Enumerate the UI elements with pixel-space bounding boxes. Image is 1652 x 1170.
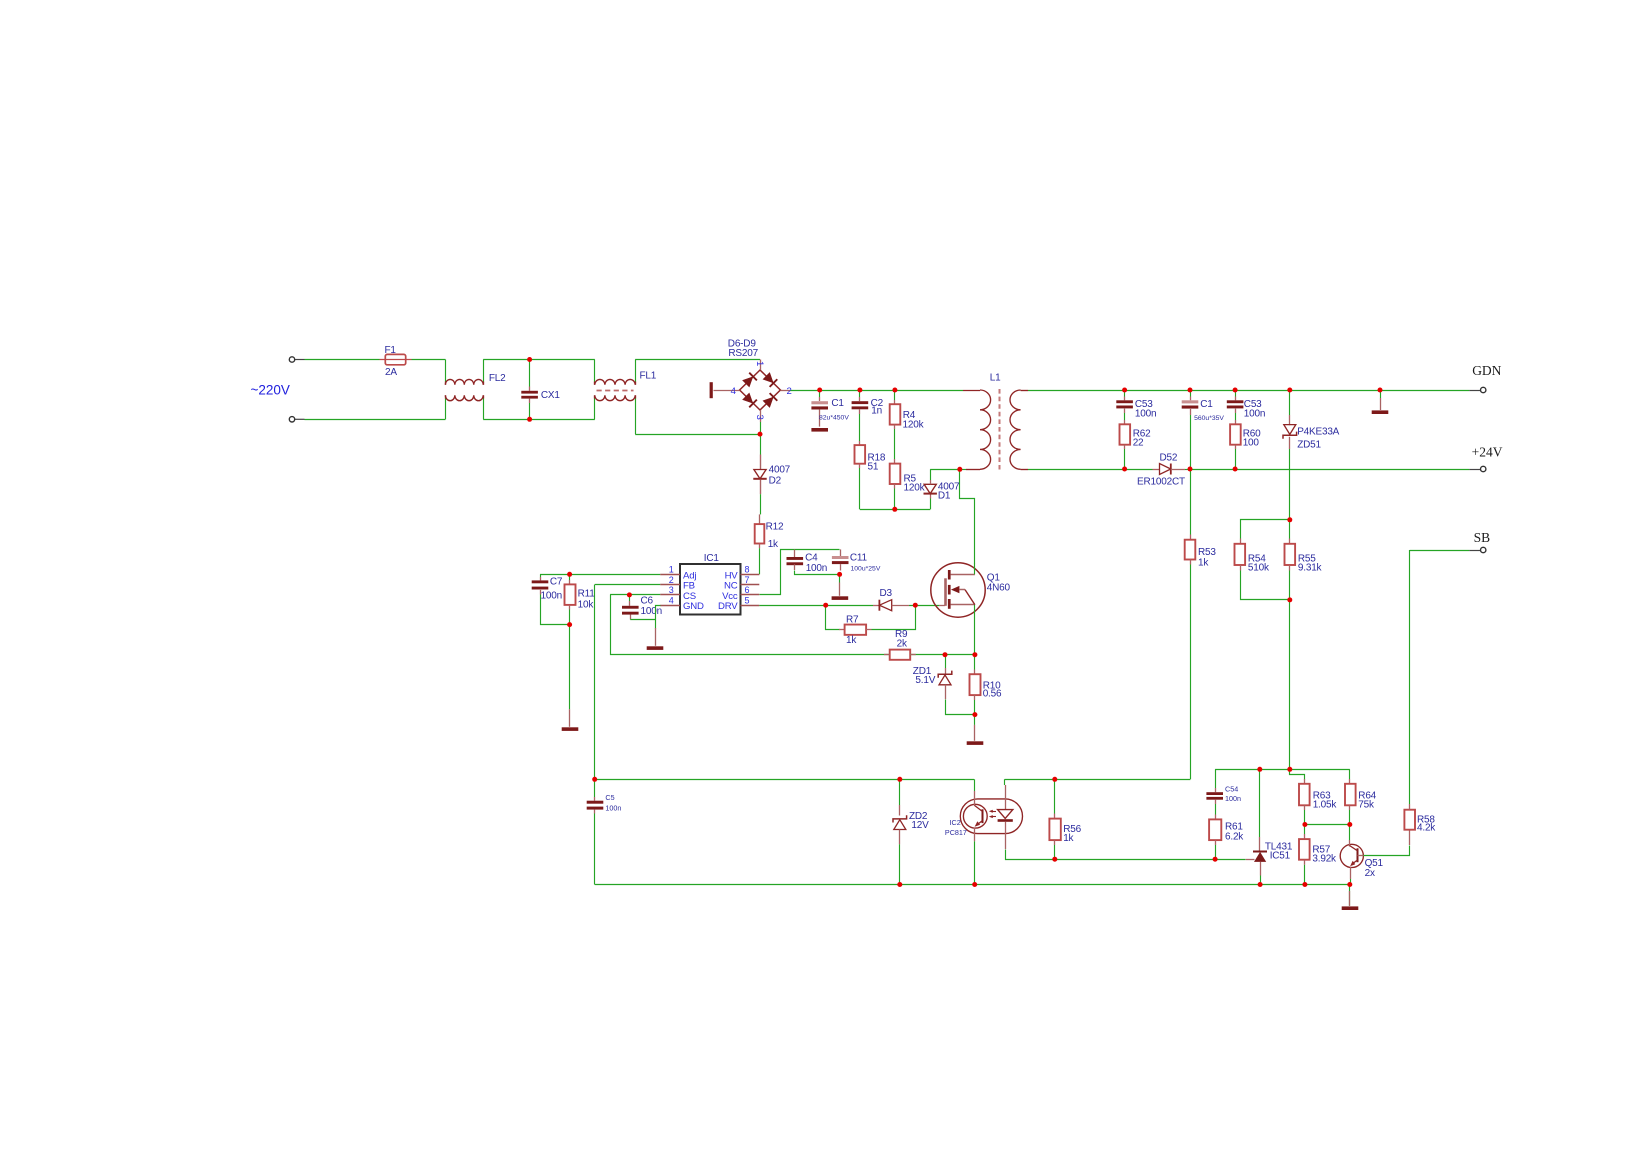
svg-text:560u*35V: 560u*35V — [1194, 415, 1224, 422]
resistor R60 100 — [1235, 420, 1237, 424]
svg-text:8: 8 — [745, 565, 750, 575]
wire bridge + rail to transformer — [791, 390, 964, 392]
ground below C11 — [832, 596, 849, 600]
svg-text:D1: D1 — [938, 491, 951, 502]
junction at 529.6,359.5 — [527, 357, 532, 362]
diode D2 4007 — [760, 434, 762, 454]
junction at 1380,390 — [1378, 388, 1383, 393]
junction at 569.6,574.3 — [567, 572, 572, 577]
svg-text:1k: 1k — [1063, 833, 1074, 844]
svg-text:R11: R11 — [578, 589, 596, 600]
svg-text:10k: 10k — [578, 599, 595, 610]
wire D1 to drain node — [930, 469, 960, 471]
svg-text:510k: 510k — [1248, 563, 1270, 574]
svg-text:2: 2 — [787, 386, 792, 397]
resistor R62 22 — [1124, 420, 1126, 424]
svg-text:6.2k: 6.2k — [1225, 831, 1244, 842]
junction at 819.7,390 — [817, 388, 822, 393]
capacitor C7 100n — [540, 574, 542, 577]
svg-text:2k: 2k — [897, 638, 908, 649]
ground below Q51 — [1342, 906, 1359, 910]
junction at 915.3,605.2 — [913, 603, 918, 608]
svg-text:0.56: 0.56 — [983, 688, 1002, 699]
bridge diode D7 (1->2) — [763, 372, 778, 387]
junction at 974.9,654.7 — [972, 652, 977, 657]
junction at 859.9,390 — [857, 388, 862, 393]
svg-text:100n: 100n — [541, 590, 562, 601]
wire F1 to FL2 — [412, 359, 446, 361]
wire FL1 top to bridge pin1 — [635, 359, 760, 361]
Q51 emitter lead — [1350, 867, 1352, 879]
terminal AC input N — [295, 418, 305, 420]
wire Vcc to C4/C11 rail — [760, 550, 840, 595]
junction at 1304.9,824.5 — [1302, 822, 1307, 827]
capacitor C6 100n — [629, 595, 631, 601]
inductor FL1 (common-mode choke) — [594, 360, 596, 382]
junction at 1349.8,824.5 — [1347, 822, 1352, 827]
wire R10 to ground — [974, 715, 976, 725]
svg-text:~220V: ~220V — [251, 383, 290, 398]
svg-text:C4: C4 — [805, 552, 818, 563]
junction at 1289.8,599.9 — [1287, 597, 1292, 602]
svg-text:1.05k: 1.05k — [1313, 800, 1338, 811]
svg-text:1: 1 — [754, 361, 765, 366]
capacitor C5 100n — [594, 779, 596, 797]
wire L terminal to F1 — [305, 359, 380, 361]
svg-text:SB: SB — [1474, 530, 1491, 545]
svg-text:9.31k: 9.31k — [1298, 563, 1323, 574]
junction at 569.6,624.6 — [567, 622, 572, 627]
wire Q51 emitter to ground — [1349, 885, 1351, 906]
svg-text:5: 5 — [745, 596, 750, 606]
svg-text:D2: D2 — [769, 476, 782, 487]
wire FB rail to optocoupler — [595, 779, 974, 781]
svg-text:R7: R7 — [846, 615, 859, 626]
junction at 1215.1,859.2 — [1213, 857, 1218, 862]
terminal AC input L — [295, 359, 305, 361]
IC1 pin stubs left — [660, 574, 680, 576]
svg-text:75k: 75k — [1358, 800, 1375, 811]
junction at 1289.8,519.8 — [1287, 517, 1292, 522]
wire to primary ground — [569, 625, 571, 710]
resistor R63 1.05k — [1304, 779, 1306, 784]
junction at 1124.6,390 — [1122, 388, 1127, 393]
junction at 1304.9,884.5 — [1302, 882, 1307, 887]
svg-text:120k: 120k — [904, 483, 926, 494]
wire LED cathode to TL431 ref rail — [1006, 850, 1246, 860]
junction at 629.4,594.9 — [627, 592, 632, 597]
junction at 1054.8,779.3 — [1052, 777, 1057, 782]
wire R54/R55 node down to TL431 rail — [1289, 600, 1291, 769]
junction at 529.6,419.3 — [527, 417, 532, 422]
svg-text:+24V: +24V — [1472, 445, 1503, 460]
svg-text:1k: 1k — [846, 635, 857, 646]
svg-text:IC2: IC2 — [950, 818, 961, 827]
diode D1 4007 — [930, 499, 932, 510]
resistor R61 6.2k — [1215, 815, 1217, 820]
capacitor C53 100n (snubber) — [1124, 390, 1126, 397]
svg-text:2: 2 — [669, 575, 674, 585]
svg-text:100u*25V: 100u*25V — [851, 566, 881, 573]
resistor R12 1k — [759, 514, 761, 524]
svg-text:GND: GND — [683, 601, 704, 612]
wire FL2 top to CX1 and FL1 — [483, 360, 485, 382]
svg-text:3: 3 — [754, 415, 765, 420]
inductor FL2 lower winding — [445, 395, 447, 398]
ground below C1 — [811, 428, 828, 432]
terminal GDN — [1469, 390, 1480, 392]
wire clamp rail — [860, 509, 930, 511]
wire CS routing — [610, 594, 660, 596]
resistor R55 9.31k — [1289, 520, 1291, 539]
svg-text:120k: 120k — [903, 419, 925, 430]
junction at 1190,469 — [1188, 467, 1193, 472]
wire N terminal to FL2 bottom — [305, 419, 446, 421]
wire divider mid node — [1305, 824, 1350, 826]
resistor R56 1k — [1054, 779, 1056, 813]
ground below R11 — [562, 727, 579, 731]
transistor Q1 4N60 — [939, 605, 945, 607]
svg-text:12V: 12V — [911, 820, 929, 831]
inductor FL2 (common-mode choke) — [445, 382, 447, 385]
junction at 1260.1,884.5 — [1258, 882, 1263, 887]
wire LED anode rail — [1005, 779, 1190, 781]
terminal +24V — [1469, 469, 1480, 471]
junction at 894.8,509.3 — [892, 507, 897, 512]
svg-text:C5: C5 — [605, 793, 614, 802]
svg-text:DRV: DRV — [718, 601, 738, 612]
transformer L1 secondary winding — [1010, 390, 1021, 469]
terminal SB — [1410, 550, 1470, 552]
ground tap on GDN rail — [1380, 390, 1382, 398]
svg-text:ZD51: ZD51 — [1297, 440, 1321, 451]
bridge pin leads — [760, 360, 762, 371]
IC2 LED — [1004, 779, 1006, 785]
bridge diode D6 (4->1) — [742, 373, 757, 388]
bridge diode D8 (4->3) — [742, 393, 757, 408]
junction at 839.6,574.4 — [837, 572, 842, 577]
optocoupler IC2 PC817 — [960, 799, 1022, 834]
svg-text:C11: C11 — [850, 552, 868, 563]
svg-text:R53: R53 — [1198, 547, 1216, 558]
junction at 1054.8,859.2 — [1052, 857, 1057, 862]
capacitor C4 100n — [794, 549, 796, 557]
wire GND pin to ground — [656, 606, 661, 629]
svg-text:IC1: IC1 — [704, 553, 720, 564]
resistor R53 1k — [1190, 469, 1192, 535]
svg-text:D52: D52 — [1160, 453, 1178, 464]
junction at 899.8,884.5 — [897, 882, 902, 887]
svg-text:ER1002CT: ER1002CT — [1137, 477, 1185, 488]
svg-text:22: 22 — [1133, 438, 1144, 449]
capacitor C2 1n — [859, 390, 861, 397]
wire +24V rail — [1190, 469, 1469, 471]
wire bridge pin3 node — [760, 422, 762, 434]
svg-text:4N60: 4N60 — [987, 583, 1011, 594]
diode D52 ER1002CT — [1125, 469, 1153, 471]
zener ZD2 12V — [899, 779, 901, 805]
resistor R11 10k — [569, 574, 571, 580]
ground below IC1 — [647, 646, 664, 650]
IC2 emitter lead — [974, 828, 976, 842]
svg-text:FL1: FL1 — [640, 371, 657, 382]
IC1 pin stubs right — [741, 574, 760, 576]
svg-text:FL2: FL2 — [489, 373, 506, 384]
wire DRV line — [759, 605, 873, 607]
junction at 825.7,605.2 — [823, 603, 828, 608]
capacitor C53 100n (output) — [1235, 390, 1237, 397]
resistor R9 2k — [890, 650, 911, 660]
wire FL2 bottom to CX1 bottom and FL1 — [483, 399, 485, 420]
svg-text:6: 6 — [745, 585, 750, 595]
resistor R10 0.56 — [974, 655, 976, 670]
wire drain node down to Q1 — [960, 470, 975, 564]
svg-text:100n: 100n — [1135, 409, 1156, 420]
junction at 1124.6,469 — [1122, 467, 1127, 472]
svg-text:C1: C1 — [831, 398, 844, 409]
resistor R64 75k — [1349, 769, 1351, 779]
svg-text:5.1V: 5.1V — [915, 675, 935, 686]
svg-text:RS207: RS207 — [728, 348, 758, 359]
svg-text:100n: 100n — [1225, 794, 1241, 803]
svg-text:L1: L1 — [990, 372, 1001, 383]
svg-text:GDN: GDN — [1472, 363, 1501, 378]
junction at 974.9,714.6 — [972, 712, 977, 717]
wire TL431 top rail — [1215, 769, 1350, 771]
zener ZD51 P4KE33A — [1289, 390, 1291, 415]
IC1 box — [680, 564, 741, 615]
wire secondary bottom to D52 — [1028, 469, 1125, 471]
wire to ground below C11 — [839, 574, 841, 582]
fuse F1 — [385, 354, 405, 364]
resistor R5 120k — [894, 459, 896, 464]
svg-text:CX1: CX1 — [541, 390, 560, 401]
bridge diode D9 (3->2) — [763, 393, 778, 408]
junction at 899.8,779.3 — [897, 777, 902, 782]
inductor FL1 lower winding — [594, 399, 596, 420]
svg-text:R12: R12 — [766, 521, 784, 532]
resistor R58 4.2k — [1409, 830, 1411, 845]
svg-text:F1: F1 — [385, 345, 397, 356]
wire FB down — [595, 584, 661, 586]
capacitor CX1 — [529, 360, 531, 387]
junction at 959.8,469.3 — [957, 467, 962, 472]
svg-text:3.92k: 3.92k — [1312, 854, 1337, 865]
svg-text:C1: C1 — [1200, 399, 1213, 410]
capacitor C54 100n — [1215, 769, 1217, 788]
svg-text:D3: D3 — [880, 588, 893, 599]
svg-text:100n: 100n — [605, 803, 621, 812]
junction at 1259.8,769.3 — [1257, 767, 1262, 772]
resistor R18 51 — [859, 441, 861, 445]
capacitor C1 82u*450V — [819, 390, 821, 397]
junction at 594.7,779.3 — [592, 777, 597, 782]
svg-text:1: 1 — [669, 565, 674, 575]
capacitor C11 100u*25V — [840, 549, 842, 556]
svg-text:100: 100 — [1243, 438, 1260, 449]
ground bar at bridge pin 4 — [710, 382, 713, 398]
capacitor C1 560u*35V — [1190, 390, 1192, 397]
junction at 1235.1,469 — [1233, 467, 1238, 472]
svg-text:4: 4 — [669, 596, 674, 606]
svg-text:4007: 4007 — [769, 464, 791, 475]
junction at 1190,390 — [1188, 388, 1193, 393]
svg-text:C7: C7 — [550, 577, 563, 588]
resistor R4 120k — [894, 390, 896, 400]
svg-text:PC817: PC817 — [945, 828, 967, 837]
Q51 base wire to R58 — [1358, 855, 1364, 857]
svg-text:3: 3 — [669, 585, 674, 595]
svg-text:82u*450V: 82u*450V — [819, 415, 849, 422]
svg-text:2A: 2A — [385, 367, 397, 378]
junction at 945,654.7 — [943, 652, 948, 657]
resistor R7 1k (parallel with D3) — [826, 606, 840, 630]
svg-text:100n: 100n — [641, 606, 662, 617]
zener ZD1 5.1V — [945, 655, 947, 668]
wire Adj rail — [540, 574, 660, 576]
transistor Q51 2x — [1349, 825, 1351, 841]
svg-text:1k: 1k — [1198, 558, 1209, 569]
Q1 body-diode arrow — [951, 586, 960, 593]
IC2 phototransistor — [982, 809, 984, 823]
junction at 974.7,884.5 — [972, 882, 977, 887]
wire bottom secondary-side rail — [595, 884, 1350, 886]
Q1 source net — [974, 605, 976, 655]
junction at 760,434.1 — [758, 432, 763, 437]
svg-text:IC51: IC51 — [1270, 850, 1291, 861]
junction at 1235.1,390 — [1233, 388, 1238, 393]
shunt regulator IC51 TL431 — [1259, 769, 1261, 837]
resistor R54 510k — [1241, 520, 1290, 539]
Q1 drain net inside circle — [974, 563, 976, 574]
svg-text:1k: 1k — [768, 539, 779, 550]
svg-text:51: 51 — [868, 462, 879, 473]
svg-text:2x: 2x — [1365, 868, 1375, 879]
svg-text:100n: 100n — [806, 563, 827, 574]
junction at 894.9,390 — [892, 388, 897, 393]
resistor R57 3.92k — [1304, 825, 1306, 835]
svg-text:P4KE33A: P4KE33A — [1297, 426, 1339, 437]
transformer L1 core — [999, 389, 1001, 470]
wire FL1 bottom to bridge pin3 — [635, 399, 637, 435]
svg-text:100n: 100n — [1244, 409, 1265, 420]
wire divider top jog to R63 — [1290, 770, 1305, 780]
wire GDN rail — [1028, 390, 1469, 392]
IC2 light arrows — [991, 811, 996, 813]
svg-text:4.2k: 4.2k — [1417, 822, 1436, 833]
svg-text:1n: 1n — [871, 406, 882, 417]
svg-text:4: 4 — [731, 386, 737, 397]
junction at 1289.8,390 — [1287, 388, 1292, 393]
diode D3 — [873, 605, 879, 607]
junction at 1349.8,884.5 — [1347, 882, 1352, 887]
svg-text:C54: C54 — [1225, 785, 1238, 794]
FL1 core dashes — [597, 390, 634, 392]
svg-text:7: 7 — [745, 575, 750, 585]
IC2 collector lead — [974, 779, 976, 791]
junction at 1289.8,769.3 — [1287, 767, 1292, 772]
transformer L1 primary winding — [963, 390, 980, 392]
ground below R10 — [967, 741, 984, 745]
